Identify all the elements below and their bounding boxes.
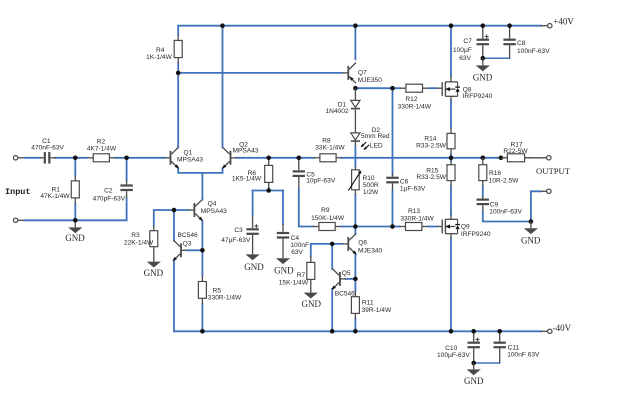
transistor Q7	[343, 63, 383, 84]
capacitor C5	[293, 158, 336, 189]
junction output rail R16	[481, 156, 486, 161]
junction R5 bottom rail	[200, 329, 205, 334]
resistor R14	[416, 128, 455, 154]
wire R1 bottom	[74, 204, 76, 221]
junction R6 bottom	[266, 188, 271, 193]
svg-text:MPSA43: MPSA43	[201, 208, 227, 215]
svg-text:R9: R9	[321, 207, 330, 214]
resistor R13	[399, 208, 434, 231]
svg-text:10R-2.5W: 10R-2.5W	[489, 177, 519, 184]
wire R9 to R13 / lower gate line	[341, 226, 399, 228]
svg-text:Q1: Q1	[184, 149, 193, 156]
svg-text:470pF-63V: 470pF-63V	[93, 196, 126, 203]
capacitor C2	[93, 180, 133, 202]
resistor R11	[351, 291, 392, 319]
svg-text:47µF-63V: 47µF-63V	[221, 237, 251, 244]
wire Q6 emitter to Q5 base node	[354, 254, 356, 279]
junction Q9 drain rail	[449, 329, 454, 334]
svg-text:Q7: Q7	[358, 69, 367, 76]
transistor Q5	[332, 269, 356, 298]
svg-text:39R-1/4W: 39R-1/4W	[362, 307, 392, 314]
svg-text:MPSA43: MPSA43	[232, 148, 258, 155]
capacitor C4	[277, 224, 309, 258]
wire Q2 base	[236, 157, 314, 159]
wire C2 top	[126, 158, 128, 181]
svg-text:C11: C11	[508, 345, 520, 352]
wire R6 lower lead	[268, 188, 270, 191]
wire Q1-collector / R4 rail to Q7 base	[178, 72, 342, 74]
junction C6 top node	[390, 86, 395, 91]
junction output ground node	[529, 219, 534, 224]
junction R2-C2 node	[124, 156, 129, 161]
svg-text:GND: GND	[464, 376, 484, 386]
svg-text:1µF-63V: 1µF-63V	[400, 186, 426, 193]
resistor R7	[279, 256, 315, 292]
svg-text:R7: R7	[297, 272, 306, 279]
wire R2 to Q1 base	[115, 157, 164, 159]
resistor R12	[398, 84, 432, 111]
svg-text:C2: C2	[104, 187, 113, 194]
mosfet Q8	[437, 76, 493, 101]
port Input	[5, 156, 31, 223]
svg-text:33K-1/4W: 33K-1/4W	[315, 145, 345, 152]
ground C10 GND	[464, 363, 484, 386]
svg-text:1K-1/4W: 1K-1/4W	[146, 54, 172, 61]
wire C6 top to upper gate node	[392, 88, 394, 174]
junction C5 top	[297, 156, 302, 161]
wire C7 C8 ground link	[483, 57, 510, 59]
svg-text:R13: R13	[408, 208, 420, 215]
svg-text:5mm Red: 5mm Red	[361, 133, 390, 140]
svg-text:GND: GND	[521, 235, 541, 245]
junction input ground	[73, 218, 78, 223]
svg-text:-40V: -40V	[553, 323, 572, 333]
wire R13 to Q9 gate	[428, 226, 437, 228]
port +40V	[548, 16, 575, 28]
wire output rail	[341, 157, 501, 159]
junction R4 bottom	[176, 71, 181, 76]
port -40V	[548, 323, 572, 334]
junction C7 top	[481, 23, 486, 28]
node Input line	[18, 157, 40, 159]
junction C10 bottom ground	[471, 361, 476, 366]
ground R7 GND	[302, 292, 322, 309]
svg-text:R8: R8	[322, 137, 331, 144]
capacitor C7	[453, 26, 489, 62]
svg-text:4K7-1/4W: 4K7-1/4W	[87, 146, 117, 153]
junction R10 bottom node	[353, 224, 358, 229]
junction C10 top	[471, 329, 476, 334]
svg-text:LED: LED	[370, 142, 383, 149]
svg-text:MPSA43: MPSA43	[177, 157, 203, 164]
capacitor C9	[477, 196, 523, 215]
svg-text:22K-1/4W: 22K-1/4W	[124, 240, 154, 247]
svg-text:Q9: Q9	[461, 223, 470, 230]
svg-text:Q3: Q3	[183, 240, 192, 247]
svg-text:Q4: Q4	[208, 201, 217, 208]
wire Q8 drain to R14	[450, 101, 452, 128]
svg-text:1K5-1/4W: 1K5-1/4W	[232, 176, 262, 183]
svg-text:Input: Input	[5, 187, 31, 197]
svg-text:100nF-63V: 100nF-63V	[489, 209, 522, 216]
svg-text:C10: C10	[445, 345, 457, 352]
wire Q5 base	[346, 278, 356, 280]
svg-text:GND: GND	[65, 233, 85, 243]
junction Q4 emitter / Q3 base	[200, 248, 205, 253]
svg-text:330R-1/4W: 330R-1/4W	[400, 216, 434, 223]
svg-text:OUTPUT: OUTPUT	[536, 166, 571, 176]
ground output GND	[521, 222, 541, 246]
wire R11 top	[354, 279, 356, 291]
wire -40V rail	[174, 330, 547, 332]
resistor R6	[232, 158, 273, 188]
svg-text:BC546: BC546	[178, 232, 198, 239]
wire Q5 emitter to -40V rail	[331, 289, 333, 332]
wire R16 bottom to C9	[482, 186, 484, 196]
svg-text:100µF-63V: 100µF-63V	[437, 352, 470, 359]
wire R4 top	[177, 26, 179, 35]
svg-text:C7: C7	[463, 38, 472, 45]
ground C7 GND	[473, 58, 493, 82]
wire R5 bottom	[201, 304, 203, 331]
wire Q4 base line	[154, 210, 189, 225]
svg-text:R10: R10	[363, 175, 375, 182]
resistor R16	[479, 158, 519, 186]
wire R6 bottom node	[253, 190, 283, 192]
svg-text:GND: GND	[274, 265, 294, 275]
resistor R15	[416, 161, 455, 186]
resistor R2	[87, 139, 117, 162]
wire +40V rail	[178, 25, 547, 27]
wire Q7 collector node to R12	[355, 87, 400, 89]
wire R11 bottom	[354, 319, 356, 331]
junction +40V at Q2 collector	[220, 23, 225, 28]
svg-text:15K-1/4W: 15K-1/4W	[279, 280, 309, 287]
transistor Q2	[222, 142, 259, 169]
potentiometer R10	[348, 167, 379, 196]
junction C11 top	[497, 329, 502, 334]
wire D2 to R10	[354, 146, 356, 166]
svg-text:R16: R16	[489, 170, 501, 177]
svg-text:330R-1/4W: 330R-1/4W	[398, 104, 432, 111]
junction R11 bottom rail	[353, 329, 358, 334]
resistor R17	[501, 141, 531, 161]
svg-text:1/2W: 1/2W	[363, 189, 379, 196]
junction C8 top	[507, 23, 512, 28]
mosfet Q9	[437, 215, 491, 238]
svg-text:100µF: 100µF	[453, 47, 472, 54]
wire Q2 collector to +40V rail	[222, 26, 224, 148]
diode D1	[325, 88, 360, 115]
wire Q7 emitter to +40V rail	[354, 26, 356, 60]
wire Q6 collector	[354, 227, 356, 235]
wire R7 top	[310, 244, 312, 257]
svg-text:C8: C8	[517, 40, 526, 47]
svg-text:GND: GND	[244, 262, 264, 272]
svg-text:IRFP9240: IRFP9240	[463, 93, 493, 100]
wire R4 bottom to Q1 collector	[177, 63, 179, 147]
wire to C3	[252, 191, 254, 216]
transistor Q3	[173, 232, 199, 261]
svg-text:R2: R2	[97, 139, 106, 146]
wire C1 to R2	[55, 157, 87, 159]
capacitor C6	[386, 174, 426, 193]
wire R10 to Q6 collector node	[354, 195, 356, 227]
resistor R9	[311, 207, 345, 230]
svg-text:470nF-63V: 470nF-63V	[31, 145, 64, 152]
wire R12 to Q8 gate	[429, 87, 437, 89]
wire C9 to output-ground node	[483, 211, 531, 221]
capacitor C11	[494, 331, 541, 363]
svg-text:R11: R11	[362, 299, 374, 306]
junction Q4 base	[172, 208, 177, 213]
transistor Q1	[165, 148, 204, 169]
resistor R5	[198, 276, 242, 304]
junction input node	[73, 156, 78, 161]
wire tail to Q4 collector	[201, 173, 203, 200]
resistor R8	[314, 137, 345, 161]
svg-text:500R: 500R	[363, 182, 379, 189]
wire C5 bottom to R9	[299, 189, 313, 227]
svg-text:63V: 63V	[291, 249, 303, 256]
wire Q4-base to Q3 collector	[173, 210, 175, 240]
wire C6 bottom to lower gate node	[392, 190, 394, 227]
ground C3 GND	[244, 254, 264, 271]
wire Q8 source to +40V rail	[450, 26, 452, 76]
capacitor C8	[503, 26, 550, 59]
svg-text:100nF-63V: 100nF-63V	[517, 48, 550, 55]
svg-text:C6: C6	[400, 179, 409, 186]
wire Q5 collector	[331, 244, 333, 269]
junction +40V at Q7 emitter	[353, 23, 358, 28]
ground R3 GND	[144, 261, 164, 278]
svg-text:R12: R12	[405, 96, 417, 103]
junction Q7 collector node	[353, 86, 358, 91]
wire R1 top	[74, 158, 76, 175]
junction +40V at Q8	[449, 23, 454, 28]
capacitor C10	[437, 331, 480, 363]
wire to C4	[282, 191, 284, 225]
svg-text:R5: R5	[213, 287, 222, 294]
transistor Q6	[343, 234, 383, 255]
ground C4 GND	[274, 258, 294, 275]
svg-text:63V: 63V	[459, 55, 471, 62]
svg-text:Q5: Q5	[342, 270, 351, 277]
junction output rail R14/R15	[449, 156, 454, 161]
wire R15 to Q9 source	[450, 186, 452, 215]
junction Q6 emitter / Q5 base / R11	[353, 277, 358, 282]
svg-text:GND: GND	[144, 268, 164, 278]
capacitor C1	[31, 138, 64, 164]
wire Q3 base to R5 top	[187, 249, 202, 251]
wire Q3 emitter down	[173, 261, 175, 332]
svg-text:47K-1/4W: 47K-1/4W	[40, 193, 70, 200]
svg-text:330R-1/4W: 330R-1/4W	[208, 295, 242, 302]
svg-text:10pF-63V: 10pF-63V	[306, 178, 336, 185]
resistor R1	[40, 175, 79, 203]
svg-text:MJE340: MJE340	[358, 247, 383, 254]
junction C6 bottom node	[390, 224, 395, 229]
junction C7 ground node	[481, 56, 486, 61]
transistor Q4	[189, 200, 228, 221]
svg-text:1N4002: 1N4002	[325, 108, 348, 115]
wire Q4 emitter to R5	[201, 221, 203, 276]
led D2	[351, 110, 390, 150]
wire emitters Q1-Q2	[178, 168, 222, 173]
svg-text:MJE350: MJE350	[358, 77, 383, 84]
resistor R4	[146, 35, 182, 63]
svg-text:C9: C9	[490, 202, 499, 209]
svg-text:IRFP9240: IRFP9240	[461, 231, 491, 238]
svg-text:R33-2.5W: R33-2.5W	[416, 142, 446, 149]
wire Q6 base line	[311, 243, 343, 245]
svg-text:150K-1/4W: 150K-1/4W	[311, 215, 345, 222]
svg-text:R3: R3	[131, 232, 140, 239]
resistor R3	[124, 225, 158, 261]
port OUTPUT	[536, 156, 571, 194]
wire Q9 drain to -40V rail	[450, 238, 452, 331]
svg-text:Q6: Q6	[358, 239, 367, 246]
wire input ground line	[18, 219, 127, 221]
wire R14 bottom	[450, 154, 452, 158]
svg-text:100nF 63V: 100nF 63V	[507, 352, 540, 359]
svg-text:C3: C3	[234, 227, 243, 234]
wire R15 top	[450, 158, 452, 161]
wire C10 C11 ground link	[474, 362, 500, 364]
svg-text:GND: GND	[473, 73, 493, 83]
wire C2 bottom	[126, 198, 128, 221]
svg-text:R22-5W: R22-5W	[503, 148, 528, 155]
junction Q5 emitter rail	[330, 329, 335, 334]
junction Q6 base / Q5 collector	[330, 242, 335, 247]
wire R17 to OUTPUT terminal	[525, 157, 546, 159]
svg-text:GND: GND	[302, 299, 322, 309]
ground input GND	[65, 220, 85, 243]
svg-text:+40V: +40V	[553, 16, 574, 26]
wire output return	[531, 191, 547, 221]
svg-text:R4: R4	[156, 47, 165, 54]
capacitor C3	[221, 216, 259, 255]
junction output rail at R17	[499, 156, 504, 161]
svg-text:R33-2.5W: R33-2.5W	[416, 174, 446, 181]
junction R6 top	[266, 156, 271, 161]
